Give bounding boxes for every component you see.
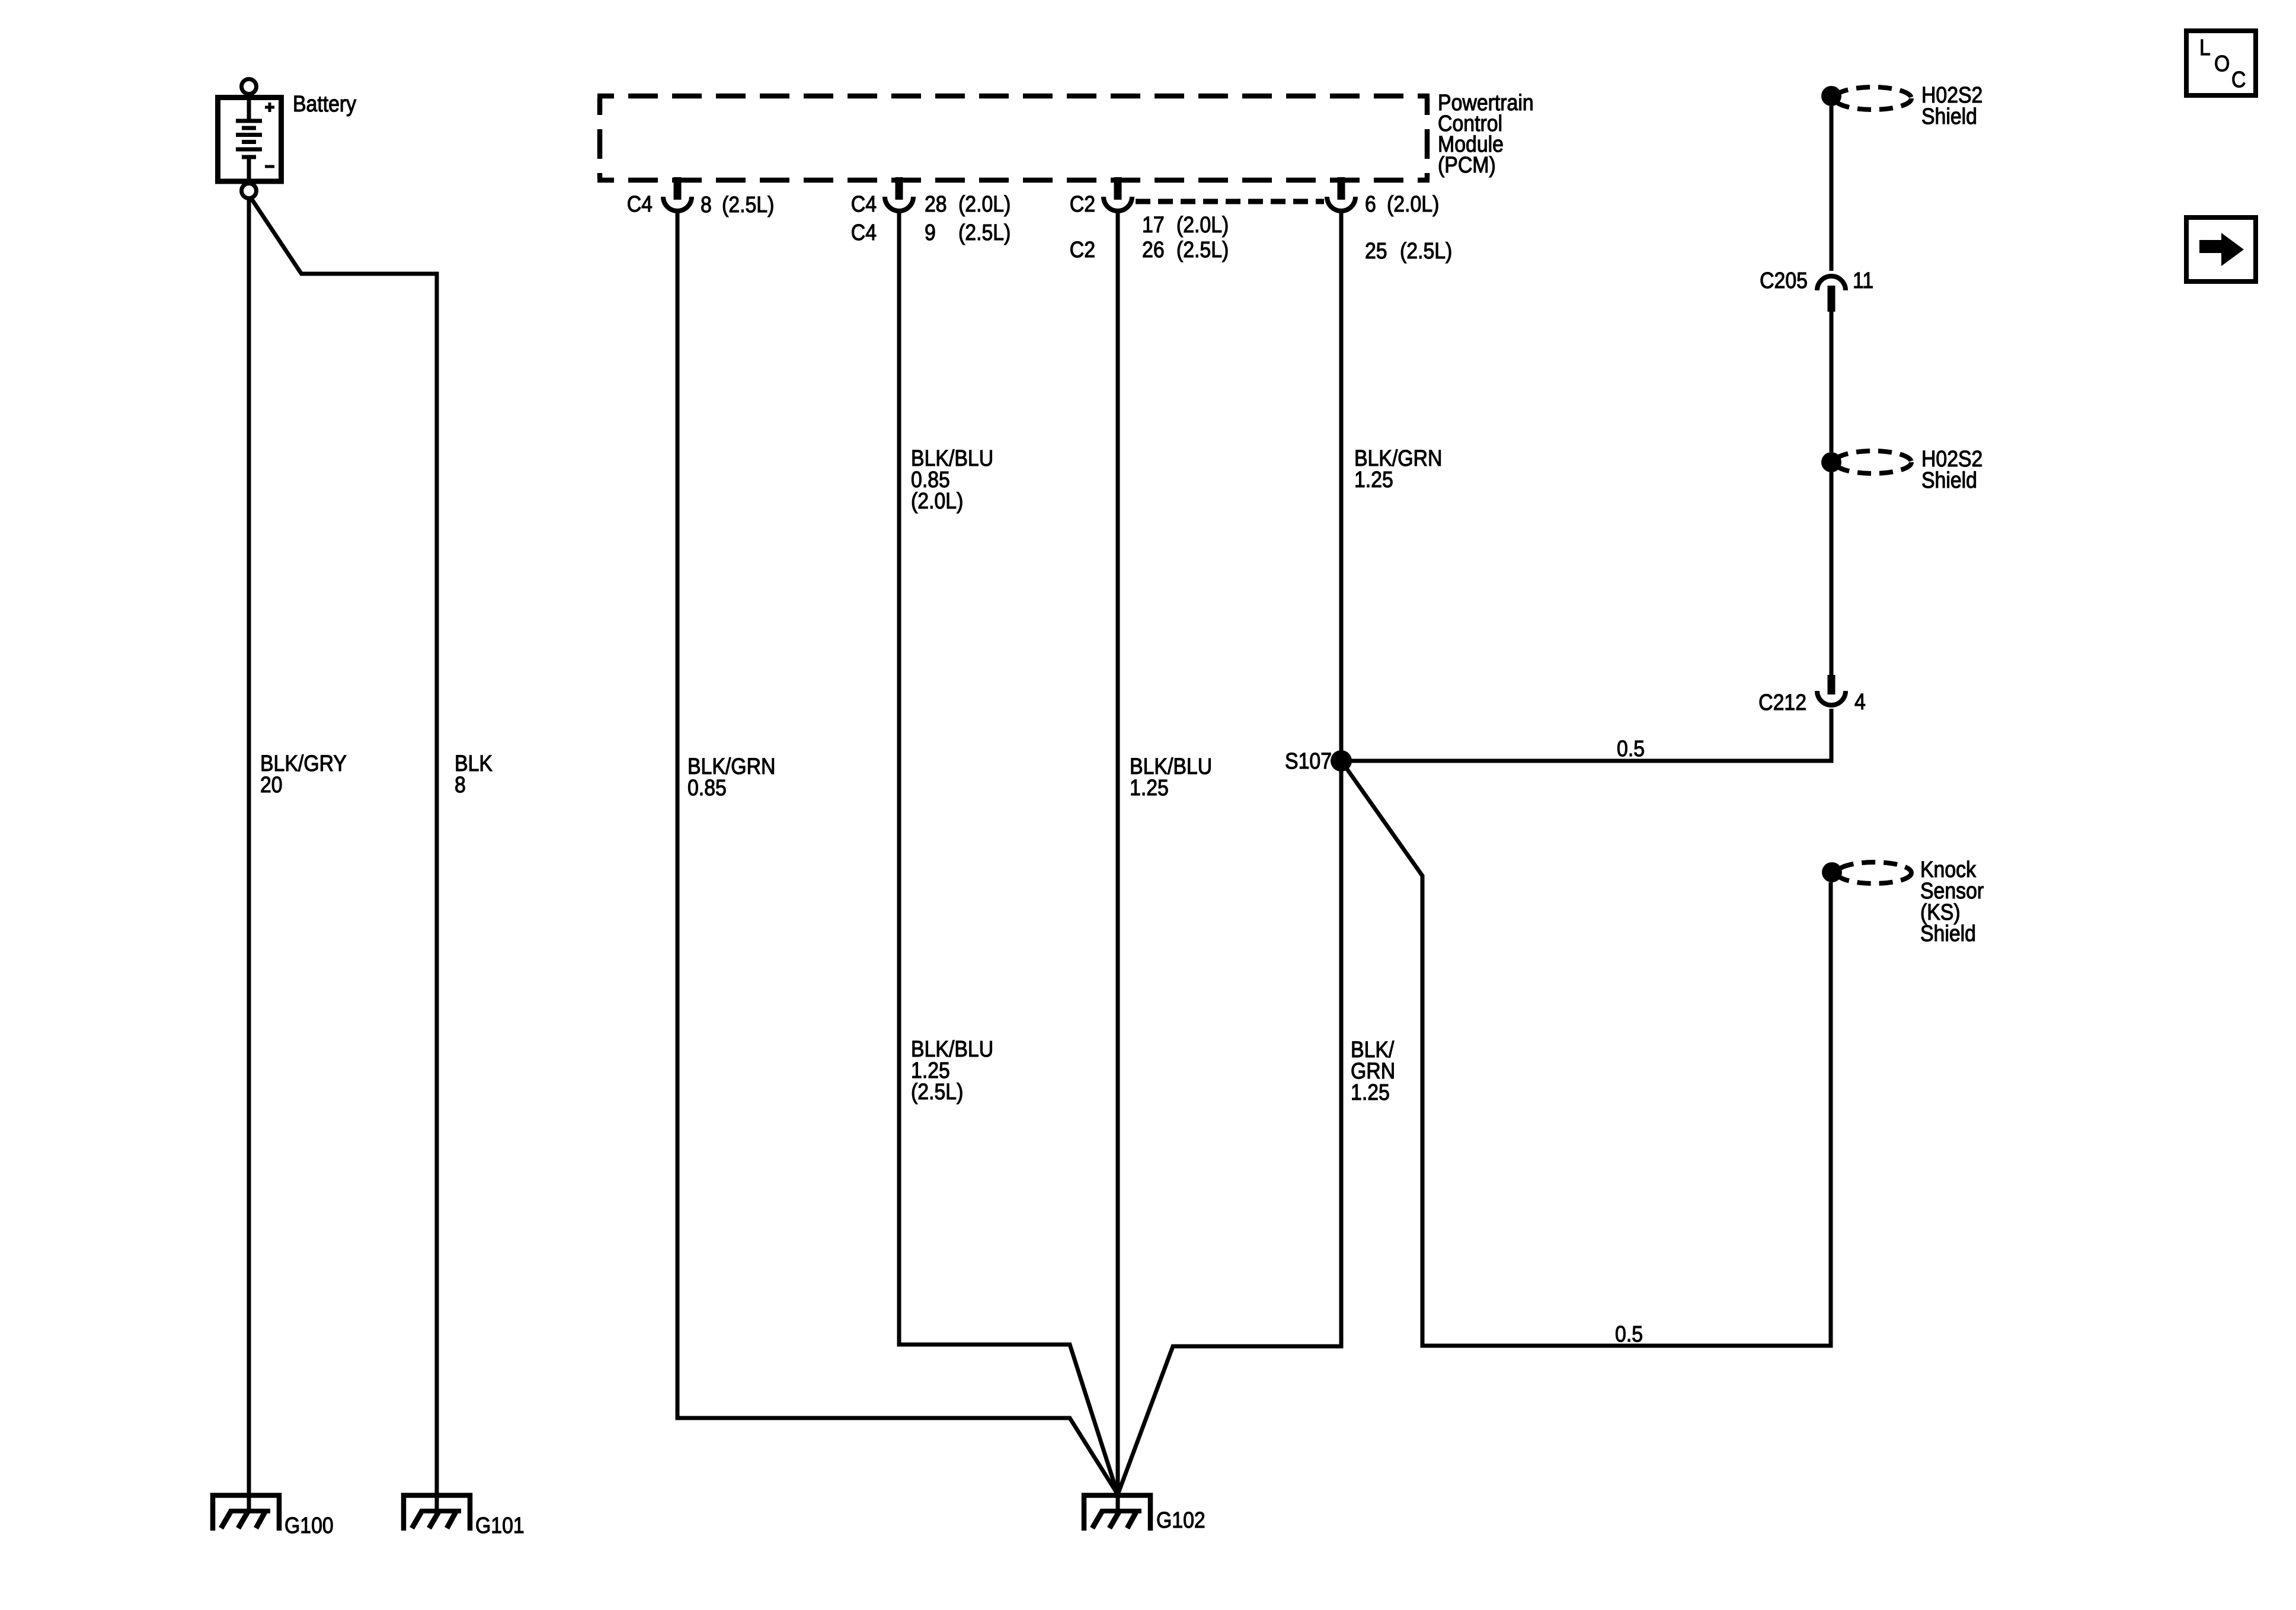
svg-text:9: 9: [925, 219, 936, 245]
svg-text:20: 20: [260, 772, 283, 797]
battery internal cells: [236, 98, 262, 191]
svg-text:G101: G101: [475, 1512, 525, 1538]
S107 junction dot: [1331, 750, 1352, 772]
PCM pin C2-17/26 connector: [1114, 177, 1122, 200]
wire C205 to H02S2 shield dot 1: [1830, 106, 1834, 271]
svg-text:(PCM): (PCM): [1438, 152, 1496, 177]
H02S2 shield dashed ellipse 1: [1834, 87, 1911, 110]
svg-text:1.25: 1.25: [1351, 1079, 1390, 1105]
svg-text:Battery: Battery: [293, 91, 356, 116]
svg-text:G100: G100: [284, 1512, 334, 1538]
svg-text:C: C: [2231, 66, 2246, 92]
svg-text:11: 11: [1853, 267, 1873, 293]
svg-text:28: 28: [925, 191, 947, 216]
svg-text:C2: C2: [1070, 191, 1095, 216]
H02S2 shield terminal dot 2: [1821, 452, 1841, 472]
ground G101: [404, 1496, 470, 1531]
svg-text:C4: C4: [851, 191, 877, 216]
svg-text:4: 4: [1854, 689, 1866, 714]
ground G102: [1084, 1496, 1150, 1531]
wire S107 to C212 (0.5): [1341, 709, 1831, 761]
svg-text:C4: C4: [627, 191, 653, 216]
svg-text:Shield: Shield: [1921, 103, 1977, 129]
arrow continuation box: [2186, 217, 2256, 281]
svg-text:8: 8: [701, 191, 712, 217]
svg-text:(2.0L): (2.0L): [958, 191, 1011, 216]
svg-text:(2.0L): (2.0L): [1176, 212, 1229, 237]
svg-text:(2.5L): (2.5L): [722, 191, 774, 217]
svg-text:C212: C212: [1758, 689, 1806, 715]
svg-text:L: L: [2199, 34, 2211, 60]
knock sensor shield dashed ellipse: [1837, 862, 1911, 884]
svg-text:17: 17: [1142, 212, 1165, 237]
svg-text:0.5: 0.5: [1617, 735, 1645, 761]
PCM pin C4-8 connector: [674, 177, 682, 200]
svg-text:G102: G102: [1156, 1507, 1205, 1532]
battery minus sign: [265, 165, 274, 168]
wire H02S2 dot 2 to C205: [1830, 312, 1834, 452]
wire pin6/25 through S107 to G102 (BLK/GRN 1.25): [1118, 212, 1341, 1494]
svg-text:6: 6: [1365, 191, 1376, 216]
battery positive terminal circle: [242, 79, 257, 94]
svg-text:(2.0L): (2.0L): [1387, 191, 1439, 216]
svg-text:0.5: 0.5: [1615, 1321, 1643, 1346]
wire S107 to knock sensor shield (BLK/GRN 1.25, 0.5): [1341, 761, 1831, 1346]
svg-text:C4: C4: [851, 219, 877, 245]
battery box: [218, 98, 282, 182]
wire C4-28/9 to G102 (BLK/BLU): [899, 212, 1118, 1494]
wire battery to G101: [252, 200, 437, 1515]
LOC letters: [2199, 34, 2246, 92]
svg-text:Shield: Shield: [1920, 920, 1976, 946]
svg-text:0.85: 0.85: [687, 774, 727, 800]
PCM pin C4-28/9 connector: [896, 177, 903, 200]
svg-text:25: 25: [1365, 238, 1387, 263]
battery plus sign: [265, 103, 274, 112]
svg-text:(2.5L): (2.5L): [1176, 236, 1229, 262]
wire C2-17/26 to G102 (BLK/BLU 1.25): [1116, 212, 1120, 1515]
svg-text:1.25: 1.25: [1130, 774, 1169, 800]
arrow symbol: [2199, 240, 2221, 253]
svg-text:C205: C205: [1760, 267, 1808, 293]
connector C205: [1828, 286, 1835, 312]
svg-text:1.25: 1.25: [1354, 466, 1393, 492]
H02S2 shield terminal dot 1: [1821, 86, 1841, 106]
battery negative terminal circle: [242, 184, 257, 199]
PCM dashed box: [597, 96, 1430, 180]
wire C4-8 to G102 (BLK/GRN 0.85): [677, 212, 1118, 1494]
connector C212: [1828, 675, 1835, 694]
svg-text:(2.5L): (2.5L): [911, 1078, 963, 1104]
svg-text:O: O: [2214, 50, 2230, 76]
svg-text:(2.5L): (2.5L): [1400, 238, 1452, 263]
svg-text:(2.5L): (2.5L): [958, 219, 1011, 245]
svg-text:8: 8: [455, 772, 466, 797]
dotted line between C2 and pin 6 connectors: [1136, 199, 1324, 204]
svg-text:S107: S107: [1285, 748, 1332, 773]
svg-text:26: 26: [1142, 236, 1165, 262]
knock sensor shield terminal dot: [1822, 862, 1842, 882]
svg-text:C2: C2: [1070, 236, 1095, 262]
ground G100: [213, 1496, 279, 1531]
LOC reference box: [2186, 31, 2256, 95]
wire C212 to H02S2 shield dot: [1830, 472, 1834, 675]
svg-text:(2.0L): (2.0L): [911, 488, 963, 513]
H02S2 shield dashed ellipse 2: [1834, 451, 1911, 473]
PCM pin 6/25 connector: [1338, 177, 1345, 200]
svg-text:Shield: Shield: [1921, 467, 1977, 492]
wire battery to G100: [247, 199, 251, 1513]
